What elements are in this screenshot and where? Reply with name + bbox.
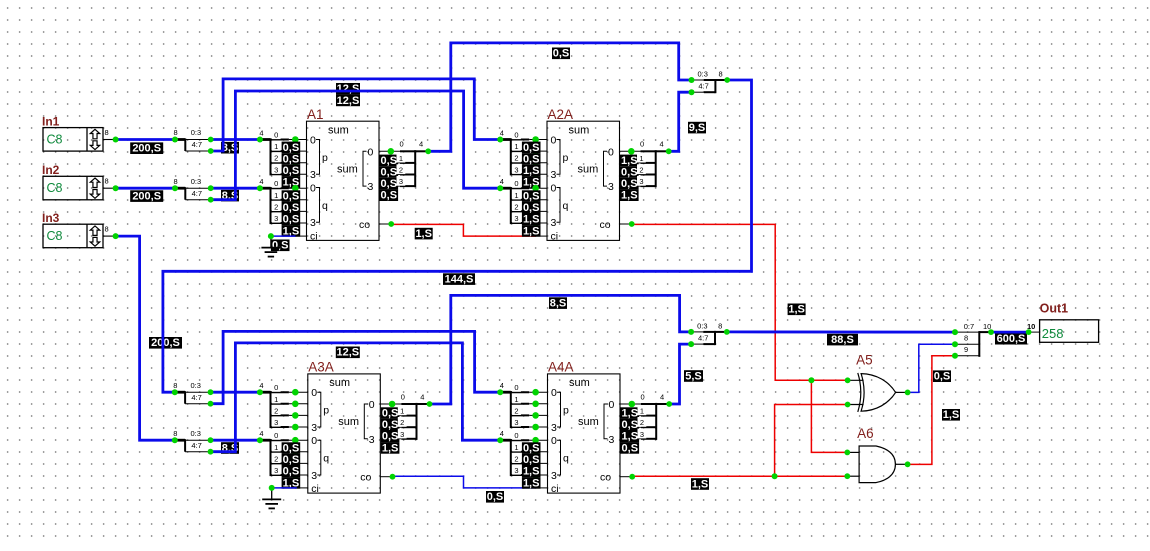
- svg-text:In2: In2: [42, 163, 60, 177]
- bus splitter 8 to 0:3/4:7 for In1: [174, 128, 211, 151]
- svg-text:1,S: 1,S: [788, 304, 805, 316]
- node A3A co output: [390, 474, 396, 480]
- svg-text:200,S: 200,S: [151, 337, 180, 349]
- svg-text:0: 0: [514, 383, 518, 392]
- value label 5,S on A4A sum bus: [684, 370, 703, 382]
- svg-text:0,S: 0,S: [283, 202, 300, 214]
- svg-text:0,S: 0,S: [523, 443, 540, 455]
- svg-text:1,S: 1,S: [943, 409, 960, 421]
- wire A4A sum to bottom byte-merger input 4:7: [669, 344, 691, 404]
- svg-text:0,S: 0,S: [523, 454, 540, 466]
- svg-text:sum: sum: [337, 164, 358, 176]
- svg-text:2: 2: [514, 154, 518, 163]
- svg-text:C8: C8: [47, 133, 63, 147]
- svg-text:1: 1: [514, 395, 518, 404]
- svg-text:4:7: 4:7: [191, 441, 201, 450]
- node In3 output pin: [113, 233, 119, 239]
- svg-text:p: p: [563, 152, 569, 164]
- svg-text:0:3: 0:3: [191, 381, 201, 390]
- svg-text:p: p: [323, 405, 329, 417]
- svg-text:0: 0: [311, 435, 317, 447]
- svg-text:4:7: 4:7: [192, 140, 202, 149]
- wire A1 sum to top byte-merger input 0:3: [428, 43, 691, 151]
- svg-text:0,S: 0,S: [523, 191, 540, 203]
- nodes of XOR gate A5: [845, 377, 911, 407]
- svg-text:A5: A5: [856, 352, 873, 367]
- wire output merger to Out1: [991, 331, 1029, 334]
- svg-text:3: 3: [369, 434, 375, 446]
- wire In2 high nibble to A2A q merger: [211, 91, 501, 200]
- wire A3A co to A4A ci: [393, 476, 536, 488]
- svg-text:2: 2: [514, 202, 518, 211]
- svg-text:3: 3: [514, 466, 518, 475]
- svg-text:A4A: A4A: [548, 360, 574, 375]
- svg-text:0: 0: [274, 179, 278, 188]
- svg-text:2: 2: [400, 418, 404, 427]
- svg-text:C8: C8: [47, 229, 63, 243]
- wire A3A sum to bottom byte-merger input 0:3: [429, 295, 691, 404]
- nodes of bus splitter 8 to 0:3/4:7 for In3: [172, 437, 214, 454]
- node A3A ci: [269, 485, 275, 491]
- svg-text:3: 3: [274, 214, 278, 223]
- wire In2 low nibble to A1 q merger: [211, 187, 260, 190]
- bus merger for A4A q input: [500, 429, 548, 489]
- 4-bit adder block A4A: [548, 360, 633, 496]
- svg-text:4: 4: [420, 392, 424, 401]
- svg-text:0,S: 0,S: [621, 166, 638, 178]
- value label 88,S on merged low byte bus: [827, 334, 858, 346]
- svg-text:0,S: 0,S: [382, 408, 399, 420]
- svg-text:0,S: 0,S: [283, 165, 300, 177]
- value label 0,S on A1 sum bus: [552, 48, 570, 60]
- svg-text:0: 0: [274, 131, 278, 140]
- bus merger for A1 p input: [259, 129, 306, 189]
- svg-text:sum: sum: [338, 416, 359, 428]
- svg-text:4: 4: [500, 429, 504, 438]
- svg-text:4: 4: [259, 381, 263, 390]
- input node of bus merger for A1 p input: [257, 137, 263, 143]
- svg-text:0,S: 0,S: [487, 491, 504, 503]
- svg-text:200,S: 200,S: [132, 143, 161, 155]
- value label 600,S on Out1 bus: [995, 333, 1027, 345]
- svg-text:0,S: 0,S: [283, 153, 300, 165]
- bus merger for A1 q input: [259, 177, 306, 237]
- nodes of byte merger 0:3/4:7 to 8 (top, A1+A2A sums): [689, 77, 731, 95]
- svg-text:0,S: 0,S: [523, 142, 540, 154]
- wire merged 88 bus to output merger input 0:7: [727, 330, 955, 333]
- bus merger for A3A q input: [259, 429, 307, 489]
- nodes of byte merger 0:3/4:7 to 8 (bottom, A3A+A4A sums): [688, 329, 730, 347]
- wire A6 output to output merger input 9: [908, 356, 955, 465]
- svg-text:0,S: 0,S: [382, 431, 399, 443]
- svg-text:3: 3: [609, 434, 615, 446]
- ground at A3A ci: [262, 488, 281, 509]
- svg-text:2: 2: [274, 154, 278, 163]
- svg-text:0,S: 0,S: [283, 214, 300, 226]
- value label 1,S on A6 output net: [942, 409, 960, 421]
- wire A3A p splitter low nibble to A3A p merger: [211, 391, 260, 394]
- input node of bus merger for A3A p input: [257, 389, 263, 395]
- svg-text:4:7: 4:7: [698, 334, 708, 343]
- svg-text:0: 0: [369, 399, 375, 411]
- svg-text:0:3: 0:3: [191, 128, 201, 137]
- svg-text:1,S: 1,S: [382, 442, 399, 454]
- bus merger for A4A p input: [500, 381, 548, 430]
- svg-text:0: 0: [640, 140, 644, 149]
- svg-text:0,S: 0,S: [283, 443, 300, 455]
- svg-text:0,S: 0,S: [381, 178, 398, 190]
- XOR gate A5: [848, 352, 908, 412]
- svg-text:4: 4: [259, 177, 263, 186]
- svg-text:q: q: [563, 200, 569, 212]
- svg-text:0,S: 0,S: [283, 454, 300, 466]
- value label 1,S on A2A co net: [788, 304, 806, 316]
- svg-text:sum: sum: [569, 124, 590, 136]
- bus merger for A3A p input: [259, 381, 307, 430]
- svg-text:0:3: 0:3: [191, 177, 201, 186]
- svg-text:0,S: 0,S: [553, 48, 570, 60]
- svg-text:4: 4: [419, 140, 423, 149]
- svg-text:sum: sum: [569, 377, 590, 389]
- svg-text:1: 1: [639, 154, 643, 163]
- pin 10 of Out1: [1027, 322, 1040, 332]
- svg-text:1,S: 1,S: [415, 228, 432, 240]
- svg-text:3: 3: [310, 169, 316, 181]
- svg-text:2: 2: [274, 202, 278, 211]
- svg-text:0:3: 0:3: [697, 322, 707, 331]
- svg-text:4: 4: [500, 177, 504, 186]
- value label 144,S on merged sum bus: [443, 273, 475, 285]
- svg-text:8: 8: [105, 128, 109, 137]
- svg-text:sum: sum: [578, 416, 599, 428]
- value label 0,S on A4A ci net: [486, 491, 504, 503]
- nodes of bus splitter 8 to 0:3/4:7 for In2: [172, 185, 214, 202]
- svg-text:ci: ci: [310, 231, 318, 243]
- svg-text:0: 0: [609, 399, 615, 411]
- svg-text:3: 3: [608, 181, 614, 193]
- svg-text:8: 8: [174, 177, 178, 186]
- svg-text:0: 0: [400, 140, 404, 149]
- bus merger 0:7/8/9 to 10-bit output: [955, 322, 991, 357]
- svg-text:0:3: 0:3: [191, 429, 201, 438]
- wire A1 co to A2A ci: [391, 224, 536, 236]
- svg-text:2: 2: [639, 166, 643, 175]
- nodes of bus splitter 8 to 0:3/4:7 for In1: [172, 137, 214, 154]
- svg-text:3: 3: [551, 422, 557, 434]
- nodes of bus splitter for A1 sum output: [388, 148, 432, 155]
- svg-text:0,S: 0,S: [272, 240, 289, 252]
- wire A2A co to A5 input 1: [632, 224, 848, 380]
- wire In3 low nibble to A3A q merger: [211, 439, 260, 442]
- wire In1 bus to splitter: [116, 138, 175, 141]
- bus splitter for A4A sum output: [620, 392, 669, 454]
- svg-text:3: 3: [639, 177, 643, 186]
- wire A3A p splitter high nibble to A4A p merger: [211, 331, 501, 403]
- bus splitter for A1 sum output: [379, 140, 428, 202]
- svg-text:4: 4: [259, 429, 263, 438]
- wire In1 low nibble to A1 p merger: [211, 138, 260, 141]
- node Out1 input pin: [1026, 329, 1032, 335]
- svg-text:0: 0: [514, 179, 518, 188]
- AND gate A6: [847, 426, 907, 483]
- svg-text:3: 3: [400, 430, 404, 439]
- svg-text:A2A: A2A: [548, 107, 574, 122]
- svg-text:0: 0: [641, 392, 645, 401]
- svg-text:8: 8: [964, 334, 968, 343]
- svg-text:2: 2: [514, 406, 518, 415]
- svg-text:0: 0: [310, 182, 316, 194]
- svg-text:12,S: 12,S: [337, 95, 360, 107]
- nodes of bus splitter 8 to 0:3/4:7 for A3A p input: [172, 389, 214, 406]
- svg-text:In1: In1: [42, 114, 60, 128]
- svg-text:4:7: 4:7: [698, 82, 708, 91]
- output block Out1 (displays 258): [1040, 302, 1099, 343]
- svg-text:3: 3: [274, 165, 278, 174]
- byte merger 0:3/4:7 to 8 (bottom, A3A+A4A sums): [691, 322, 727, 346]
- svg-text:1,S: 1,S: [621, 155, 638, 167]
- svg-text:9: 9: [964, 345, 968, 354]
- svg-text:0,S: 0,S: [523, 153, 540, 165]
- svg-text:co: co: [600, 472, 611, 484]
- svg-text:4:7: 4:7: [192, 189, 202, 198]
- bus merger for A2A q input: [500, 177, 547, 237]
- svg-text:A1: A1: [307, 107, 324, 122]
- input block In1 (value C8, 8-bit): [42, 114, 116, 151]
- pin A3A ci: [296, 487, 308, 489]
- value label 8,S on A3A sum bus: [549, 297, 567, 309]
- svg-text:3: 3: [274, 466, 278, 475]
- wire In1 high nibble to A2A p merger: [211, 79, 501, 151]
- svg-text:Out1: Out1: [1040, 302, 1069, 316]
- svg-text:8: 8: [174, 128, 178, 137]
- svg-text:4:7: 4:7: [191, 393, 201, 402]
- svg-text:144,S: 144,S: [445, 274, 474, 286]
- svg-text:3: 3: [551, 169, 557, 181]
- svg-text:0: 0: [368, 146, 374, 158]
- svg-text:3: 3: [640, 430, 644, 439]
- svg-text:8: 8: [105, 177, 109, 186]
- svg-text:2: 2: [399, 166, 403, 175]
- svg-text:3: 3: [310, 217, 316, 229]
- svg-text:1,S: 1,S: [523, 165, 540, 177]
- svg-text:1,S: 1,S: [692, 478, 709, 490]
- wire branch A2A co to A6 input 1: [811, 380, 847, 452]
- bus splitter 8 to 0:3/4:7 for A3A p input: [173, 381, 210, 404]
- node In1 output pin: [113, 137, 119, 143]
- svg-text:ci: ci: [551, 483, 559, 495]
- svg-text:3: 3: [551, 470, 557, 482]
- input node of bus merger for A1 q input: [257, 185, 263, 191]
- svg-text:1,S: 1,S: [523, 466, 540, 478]
- svg-text:0: 0: [401, 392, 405, 401]
- svg-text:8: 8: [719, 70, 723, 79]
- junction on A2A co net to A6: [808, 377, 814, 383]
- svg-text:C8: C8: [47, 181, 63, 195]
- svg-text:4: 4: [259, 129, 263, 138]
- svg-text:2: 2: [274, 406, 278, 415]
- svg-text:0,S: 0,S: [934, 371, 951, 383]
- svg-text:0,S: 0,S: [381, 155, 398, 167]
- svg-text:0,S: 0,S: [622, 419, 639, 431]
- value label 12,S on In1 high nibble: [336, 83, 360, 95]
- bus splitter 8 to 0:3/4:7 for In3: [173, 429, 210, 452]
- wire A1 ci to ground: [271, 235, 296, 237]
- bus merger for A2A p input: [500, 129, 547, 189]
- svg-text:0,S: 0,S: [283, 191, 300, 203]
- svg-text:1: 1: [274, 191, 278, 200]
- ground at A1 ci: [261, 236, 280, 257]
- wire A2A sum to top byte-merger input 4:7: [669, 92, 692, 151]
- svg-text:0,S: 0,S: [283, 142, 300, 154]
- node In2 output pin: [113, 185, 119, 191]
- svg-text:4: 4: [660, 140, 664, 149]
- svg-text:8: 8: [173, 429, 177, 438]
- svg-text:3: 3: [551, 217, 557, 229]
- node A4A co output: [629, 474, 635, 480]
- node A1 co output: [388, 221, 394, 227]
- value label 8,S on In2 low nibble: [221, 190, 239, 202]
- svg-text:3: 3: [514, 165, 518, 174]
- svg-text:3: 3: [514, 214, 518, 223]
- input block In3 (value C8, 8-bit): [42, 211, 116, 248]
- svg-text:sum: sum: [578, 164, 599, 176]
- svg-text:co: co: [359, 219, 370, 231]
- wire branch A4A co to A5 input 2: [775, 405, 848, 477]
- svg-text:0,S: 0,S: [523, 202, 540, 214]
- svg-text:0: 0: [274, 431, 278, 440]
- svg-text:A6: A6: [857, 426, 874, 441]
- svg-text:1: 1: [399, 154, 403, 163]
- svg-text:0,S: 0,S: [621, 178, 638, 190]
- svg-text:1: 1: [514, 142, 518, 151]
- svg-text:A3A: A3A: [308, 360, 334, 375]
- svg-text:q: q: [323, 453, 329, 465]
- svg-text:12,S: 12,S: [336, 347, 359, 359]
- svg-text:0:7: 0:7: [964, 322, 974, 331]
- nodes of bus splitter for A3A sum output: [389, 401, 433, 408]
- 4-bit adder block A3A: [308, 360, 393, 496]
- svg-text:0,S: 0,S: [283, 466, 300, 478]
- svg-text:3: 3: [368, 181, 374, 193]
- svg-text:0: 0: [551, 387, 557, 399]
- value label 8,S on In1 low nibble: [221, 142, 239, 154]
- svg-text:0,S: 0,S: [381, 190, 398, 202]
- node A2A co output: [629, 221, 635, 227]
- value label 200,S on In1 bus: [130, 142, 163, 154]
- bus splitter for A3A sum output: [380, 392, 429, 454]
- svg-text:0: 0: [310, 134, 316, 146]
- svg-text:1: 1: [400, 407, 404, 416]
- value label 0,S on A1 ci: [271, 240, 290, 252]
- value label 0,S on A5 output net: [933, 370, 951, 382]
- svg-text:0: 0: [608, 146, 614, 158]
- svg-text:sum: sum: [328, 124, 349, 136]
- svg-text:0: 0: [551, 435, 557, 447]
- svg-text:0: 0: [514, 131, 518, 140]
- svg-text:9,S: 9,S: [689, 122, 706, 134]
- input node of bus merger for A2A p input: [497, 137, 503, 143]
- svg-text:1: 1: [274, 443, 278, 452]
- input node of bus merger for A4A p input: [497, 389, 503, 395]
- svg-text:p: p: [322, 152, 328, 164]
- svg-text:1: 1: [640, 407, 644, 416]
- svg-text:1: 1: [274, 142, 278, 151]
- svg-text:2: 2: [514, 454, 518, 463]
- svg-text:p: p: [563, 405, 569, 417]
- 4-bit adder block A2A: [547, 107, 632, 243]
- pin A2A ci: [535, 235, 547, 237]
- svg-text:3: 3: [311, 470, 317, 482]
- value label 200,S on In3 bus: [149, 337, 182, 349]
- svg-text:0,S: 0,S: [381, 166, 398, 178]
- nodes of AND gate A6: [844, 450, 910, 480]
- svg-text:600,S: 600,S: [997, 333, 1026, 345]
- svg-text:8,S: 8,S: [550, 298, 567, 310]
- pin A4A ci: [536, 487, 548, 489]
- nodes of bus splitter for A2A sum output: [628, 148, 672, 155]
- svg-text:co: co: [360, 472, 371, 484]
- bus splitter 8 to 0:3/4:7 for In2: [174, 177, 211, 200]
- svg-text:4: 4: [500, 129, 504, 138]
- svg-text:4: 4: [500, 381, 504, 390]
- input node of bus merger for A4A q input: [497, 437, 503, 443]
- svg-text:12,S: 12,S: [337, 83, 360, 95]
- svg-text:88,S: 88,S: [831, 334, 854, 346]
- svg-text:1,S: 1,S: [622, 431, 639, 443]
- svg-text:1,S: 1,S: [523, 225, 540, 237]
- wire In3 high nibble to A4A q merger: [211, 343, 501, 452]
- svg-text:0,S: 0,S: [382, 419, 399, 431]
- value label 8,S on In3 low nibble: [221, 442, 239, 454]
- pin A1 ci: [295, 235, 307, 237]
- svg-text:2: 2: [274, 454, 278, 463]
- svg-text:258: 258: [1042, 326, 1064, 341]
- input block In2 (value C8, 8-bit): [42, 163, 116, 200]
- svg-text:1,S: 1,S: [622, 408, 639, 420]
- svg-text:co: co: [600, 219, 611, 231]
- svg-text:3: 3: [514, 418, 518, 427]
- svg-text:8: 8: [718, 322, 722, 331]
- svg-text:2: 2: [640, 418, 644, 427]
- value label 9,S on A2A sum bus: [688, 122, 706, 134]
- svg-text:8: 8: [173, 381, 177, 390]
- svg-text:0: 0: [551, 182, 557, 194]
- value label 200,S on In2 bus: [130, 190, 163, 202]
- svg-text:q: q: [563, 453, 569, 465]
- nodes of bus splitter for A4A sum output: [629, 401, 673, 408]
- svg-text:0: 0: [551, 134, 557, 146]
- svg-text:0: 0: [311, 387, 317, 399]
- wire merged 144 bus to A3A p splitter: [163, 80, 752, 392]
- svg-text:3: 3: [274, 418, 278, 427]
- svg-text:5,S: 5,S: [685, 370, 702, 382]
- svg-text:0:3: 0:3: [698, 70, 708, 79]
- input node of bus merger for A3A q input: [257, 437, 263, 443]
- svg-text:1: 1: [514, 443, 518, 452]
- svg-text:q: q: [322, 200, 328, 212]
- svg-text:4: 4: [660, 392, 664, 401]
- svg-text:ci: ci: [551, 231, 559, 243]
- svg-text:1: 1: [274, 395, 278, 404]
- wire A5 output to output merger input 8: [908, 344, 956, 392]
- wire A4A co to A6 input 2: [632, 475, 847, 477]
- value label 12,S on In3 high nibble: [336, 347, 360, 359]
- svg-text:0: 0: [274, 383, 278, 392]
- svg-text:In3: In3: [42, 211, 60, 225]
- svg-text:1: 1: [514, 191, 518, 200]
- svg-text:ci: ci: [311, 483, 319, 495]
- value label 1,S on A4A co net: [691, 478, 709, 490]
